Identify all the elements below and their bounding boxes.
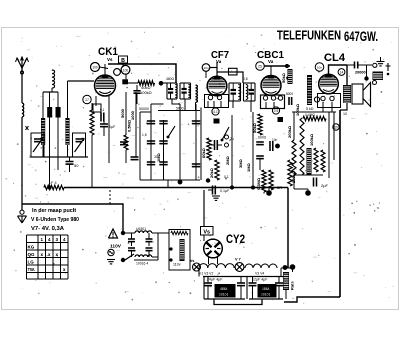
svg-text:0,1: 0,1 [100,108,105,112]
antenna coil L1 [22,103,29,130]
wire PSU bottom 1 [204,277,245,300]
svg-text:2μF: 2μF [321,183,329,188]
output transformer [343,85,351,103]
svg-text:600Ω: 600Ω [258,136,267,140]
circled 41 [212,108,219,115]
suppressor coil bottom [135,255,152,266]
pin circles CBC1 [263,96,282,108]
wire CF7 right vertical [225,115,232,188]
tube CBC1 [261,76,281,96]
heater winding right [245,264,277,268]
AC source symbol [108,249,114,255]
svg-text:24μF 4μF: 24μF 4μF [207,278,223,282]
grid circle CL4 [315,63,324,72]
svg-text:110V: 110V [110,244,122,250]
capacitor 5000 CK1 [133,85,140,104]
IF tank T1b rails [180,83,191,99]
label 110V [110,244,122,250]
IF tank T3a rails [229,83,241,101]
svg-text:1MΩ: 1MΩ [246,162,251,172]
wire tuning bottom rail [31,156,88,158]
svg-text:0,3MΩ: 0,3MΩ [256,177,261,190]
wire CF7 top rail [210,62,243,83]
field coil resistor [283,272,295,290]
label 1M mid [156,152,161,162]
svg-text:17: 17 [85,98,89,102]
svg-text:12μF 4μF: 12μF 4μF [252,278,268,282]
title TELEFUNKEN [277,29,341,43]
label 12uF 4uF [252,278,268,282]
variable capacitor CV1 box [31,133,44,157]
dashed control link [109,190,111,204]
wire CBC1 left vert [246,112,253,188]
label 110v small [173,263,181,267]
dial lamp Vs [190,259,201,271]
wire CK1 cathode drop [90,96,109,188]
pin circles CL4 [321,96,334,107]
label 30 mid [154,155,158,159]
coil T3b [246,85,248,100]
wave table grid [27,235,69,279]
svg-text:14: 14 [340,71,344,75]
svg-text:In der maap puclt: In der maap puclt [32,208,76,214]
capacitor block C4 [47,107,52,118]
resistor 50k CBC1 [288,69,293,84]
table x marks [40,252,65,272]
wire CL4 vert right [346,65,348,103]
svg-text:10n: 10n [203,66,208,70]
IF coil T2 primary [196,85,198,102]
svg-text:TW.: TW. [28,267,35,272]
svg-text:10101: 10101 [219,293,229,297]
choke CL4 [307,148,312,175]
capacitor mains 1 [128,233,135,246]
resistor CL4 grid stopper [303,113,326,121]
label 05M [127,119,132,132]
band switch S1 [167,126,175,138]
wire PSU bottom bracket [214,299,262,305]
svg-text:Vs: Vs [107,57,113,62]
detector diode marks [286,71,292,80]
wire tuning mid verticals [43,118,68,171]
barretter wire [171,231,188,235]
rectifier tube CY2 [204,239,223,258]
svg-text:4.1: 4.1 [213,110,218,114]
capacitor C17 [192,121,200,124]
terminal marks far right [386,63,391,75]
wire HT bottom [284,297,340,302]
variable capacitor CV2 [75,138,85,152]
svg-text:50: 50 [74,163,79,168]
junction square CK1 b [122,79,128,84]
circled 19 [333,124,339,130]
wire top rail CK1 [108,63,176,83]
capacitor CBC1 a [256,142,264,145]
wire T1 bottoms [158,99,200,111]
svg-text:50kΩ: 50kΩ [281,72,286,83]
wire CL4 resistor bottoms [294,103,347,175]
wire PSU bottom 2 [247,277,283,299]
capacitor PSU 4 [275,277,283,300]
tube CF7 [207,76,227,96]
svg-text:1μF: 1μF [109,125,116,129]
svg-text:25: 25 [258,65,262,69]
warning triangle [109,229,118,238]
resistor 20k CF7 [209,160,219,180]
capacitor 1uF CK1 [100,119,116,136]
tube CBC1 base [261,92,294,109]
svg-text:V 6-Uhden Type 980: V 6-Uhden Type 980 [31,217,79,223]
ground mains [107,260,115,264]
label 5R [277,185,282,190]
pin circles CF7 [208,95,222,107]
svg-text:U6301: U6301 [136,227,146,231]
grid circle CBC1 [256,62,265,71]
note line 3 [31,226,64,232]
wire grid cap [100,67,109,69]
tube CF7 base [205,95,229,108]
svg-text:1864: 1864 [262,287,270,291]
svg-text:20kΩ: 20kΩ [209,167,214,178]
capacitor T1a [168,83,173,99]
label CL4 [324,52,346,64]
coil T1b [188,85,190,98]
capacitor T3a [231,83,237,101]
wire AVC drop [49,157,51,186]
svg-text:Vs: Vs [190,259,194,263]
capacitor C18 [192,164,200,167]
capacitor 10n [258,136,280,152]
band switch S2 [221,127,229,141]
capacitor CBC1 b [256,156,264,159]
svg-text:10101: 10101 [261,293,271,297]
bias box [93,104,101,112]
svg-text:0,4MΩ: 0,4MΩ [305,113,315,117]
wire mains to box [123,233,169,260]
capacitor C12 [159,121,167,124]
wire T3 bottoms [233,101,251,112]
resistor CL4 d [321,150,325,172]
capacitor C16 [159,162,167,165]
wire CK1 plate to rail [104,64,106,75]
wire ground rail to mains [22,204,123,233]
label 1uF mid [142,133,147,137]
note line 1 [32,208,76,214]
capacitor T1b [182,83,187,99]
heater labels [199,272,264,276]
ground CF7 [212,196,220,200]
tuning coil L3 [41,118,45,145]
label 5000 T1 [176,107,184,111]
svg-text:1000: 1000 [130,110,135,120]
grid connector circle 100 [121,65,130,74]
electrolytic block 1 [215,284,236,298]
label 08 [243,77,248,81]
svg-text:200kΩ: 200kΩ [287,125,292,138]
coil T1a [175,85,177,98]
wire AVC bus [64,187,288,189]
svg-text:50000: 50000 [139,107,149,111]
table headers [40,237,65,242]
circled 05 [272,107,279,114]
resistor CL4 c [309,133,318,172]
label CY2 [226,234,245,246]
svg-text:5 kΩ: 5 kΩ [306,107,314,111]
wire CF7 cathode [200,108,202,181]
svg-text:5000: 5000 [176,107,184,111]
wire resistor out [161,82,167,84]
mains dot top [121,231,125,235]
speaker cone [363,83,371,107]
junction dot CL4 bottom [294,175,311,196]
svg-text:100kΩ: 100kΩ [140,90,152,95]
junction dot CBC1 rail [285,64,289,68]
label CBC1 [257,49,284,61]
label 460 [166,77,175,81]
mains dot bottom [121,258,125,262]
junction dot front end [48,186,52,190]
resistor 200k CL4 [287,125,296,175]
junction dot after resistor [159,81,164,86]
junction dot right [364,65,368,81]
electrolytic block 2 [258,284,277,298]
tube CK1 [95,75,116,96]
grid circle CF7 [202,64,210,72]
svg-text:110v: 110v [173,263,181,267]
svg-text:10n: 10n [317,66,322,70]
svg-text:647GW.: 647GW. [344,28,378,44]
capacitor PSU 2 [237,277,245,300]
mains switch [125,254,134,260]
wire CL4 mid rail [292,112,336,140]
wire tuning verticals [43,81,68,118]
wire tuning top rail [43,91,58,93]
resistor 125 vertical [120,92,128,163]
junction dot PSU a [283,265,288,270]
scan speckle [5,32,393,304]
svg-text:19: 19 [334,126,338,130]
junction dot CF7 [206,178,210,182]
capacitor 50pF [66,157,80,172]
wire heater rail [203,276,285,278]
svg-text:100: 100 [92,66,98,70]
svg-text:0,8: 0,8 [243,77,248,81]
svg-text:CY2: CY2 [226,234,245,246]
svg-text:30: 30 [154,155,158,159]
svg-text:LG: LG [28,260,35,265]
variable capacitor CV1 [29,138,43,159]
wire heater ends [199,268,281,277]
box B [119,56,128,64]
terminal circle [20,210,24,214]
svg-text:4864: 4864 [220,287,228,291]
svg-text:V 7: V 7 [235,258,241,262]
wire CF7 grid [205,71,207,78]
note line 2 [31,217,79,223]
label 24uF 4uF [207,278,223,282]
box CF7 top [229,68,238,75]
barretter dots [169,247,172,261]
label 5kO [306,107,314,111]
capacitor 0.1uF [208,186,230,195]
capacitor C10 [100,92,139,160]
wire field coil bottom [285,290,287,299]
svg-text:V3 V4: V3 V4 [255,272,264,276]
resistor 200k right [288,160,296,186]
label 01uF b [224,175,229,179]
IF tank T1a rails [167,83,177,99]
terminal circle right [373,63,377,67]
circled 14 [338,69,345,76]
electrolytic right [373,72,384,81]
svg-text:1: 1 [29,155,31,159]
capacitor PSU 1 [204,277,212,300]
wire HT vertical [339,110,341,297]
svg-text:V7- 4V. 0,3A: V7- 4V. 0,3A [31,226,64,232]
svg-text:100: 100 [123,68,129,72]
svg-text:3MΩ: 3MΩ [238,158,243,168]
choke CL4 grid [307,75,312,105]
capacitor C14 [159,141,167,144]
junction dot PSU b [290,264,296,270]
label Va under CF7 [216,59,222,64]
svg-text:460Ω: 460Ω [166,77,175,81]
label 50000 [139,107,149,111]
svg-text:2MΩ: 2MΩ [225,155,230,165]
wire PSU right link [281,268,293,272]
svg-text:60kΩ: 60kΩ [201,147,206,158]
suppressor coil top [135,227,152,233]
wire cap top rail [140,104,164,112]
antenna [16,57,29,68]
svg-text:100kΩ: 100kΩ [295,103,300,116]
svg-text:5000: 5000 [120,108,125,118]
svg-text:Vs: Vs [203,230,210,236]
dial lamp V7 [235,258,244,272]
IF tank T3b rails [244,83,256,101]
resistor 02M [269,170,273,190]
svg-text:10016 4: 10016 4 [136,262,148,266]
block CF7 [214,119,220,124]
barretter box [169,230,190,271]
svg-text:TELEFUNKEN: TELEFUNKEN [277,29,341,43]
variable capacitor CV2 box [73,133,86,157]
label Va under CBC1 [268,59,274,64]
svg-text:10n: 10n [272,138,278,142]
resistor 50k vert [252,114,262,135]
wire mid bottom rail [140,180,200,188]
svg-text:0.5: 0.5 [274,109,279,113]
resistor 40k [138,81,155,95]
capacitor CF7 coupling [211,140,222,150]
label CF7 [211,49,229,61]
svg-text:LF 4: LF 4 [49,181,57,185]
resistor 100k CL4 [295,103,304,175]
svg-text:Va: Va [268,59,274,64]
svg-text:0,1: 0,1 [224,175,229,179]
wire circle100 down [125,74,127,79]
circled 11 CL4 [314,97,319,102]
wire CBC1 bottom [260,159,269,194]
svg-text:1,5: 1,5 [142,133,147,137]
ground chassis arrow [18,216,27,223]
heater winding left [199,264,234,268]
wire CY2 plate top [203,190,205,241]
svg-text:KG: KG [28,245,35,250]
wire CY2 legs [209,258,218,265]
block CBC1 [278,117,284,122]
coil T3a [238,85,240,100]
label Vs under CK1 [107,57,113,62]
contact circles [225,135,234,147]
resistor 03M [256,170,266,192]
capacitor C13 [147,141,155,144]
svg-text:0,1μF: 0,1μF [220,189,230,193]
svg-text:V1 V3 V2: V1 V3 V2 [199,272,213,276]
svg-text:100kΩ: 100kΩ [309,133,314,146]
junction dot mid [178,180,255,190]
Vs label box [201,227,214,236]
barretter resistor [180,239,185,261]
label CK1 [98,46,118,58]
wire mains bottom [134,259,158,261]
capacitor PSU 3 [249,277,257,300]
svg-text:Rats: Rats [290,281,295,290]
table row labels [28,245,36,273]
junction dot CBC1 bottom [266,190,272,196]
svg-text:10: 10 [343,112,347,116]
wire CK1 to resistor [128,82,138,84]
resistor 60k CF7 [201,138,211,160]
wire right bus vertical [287,188,289,269]
label 3M [238,158,243,168]
wire antenna down [21,68,24,103]
small circle at CK1 [114,69,121,76]
capacitor 2uF [314,178,329,189]
capacitor mains 4 [146,248,153,257]
grid cap circle CK1 [91,63,100,72]
ground right [377,57,385,66]
capacitor mains 3 [146,233,153,246]
capacitor 20000 [347,62,372,75]
tube CL4 [319,74,339,94]
wire grid line to CK1 [68,80,95,82]
resistor LF [44,181,64,190]
wire mid verticals [140,104,196,181]
capacitor mains 2 [128,248,135,257]
svg-text:20000: 20000 [355,71,366,75]
circled 17 [83,95,91,103]
wire CBC1 top rail [264,66,290,75]
title 647GW [344,28,378,44]
terminal circle right 2 [373,81,377,85]
wire mains top [123,232,135,234]
tuning coil L5 [65,118,69,145]
label 10 right [343,112,347,116]
capacitor C11 [147,121,155,124]
wire CL4 verticals [329,112,334,178]
svg-text:5R: 5R [277,185,282,190]
label 50k right [281,72,286,83]
wire CL4 plate [329,65,348,74]
capacitor block C5 [56,107,61,118]
svg-text:0,5MΩ: 0,5MΩ [127,119,132,132]
tube CL4 base [318,94,341,108]
oscillator coil L2 [52,70,55,92]
wire antenna to ground rail [21,117,23,210]
capacitor C15 [147,162,155,165]
svg-text:CL4: CL4 [324,52,346,64]
